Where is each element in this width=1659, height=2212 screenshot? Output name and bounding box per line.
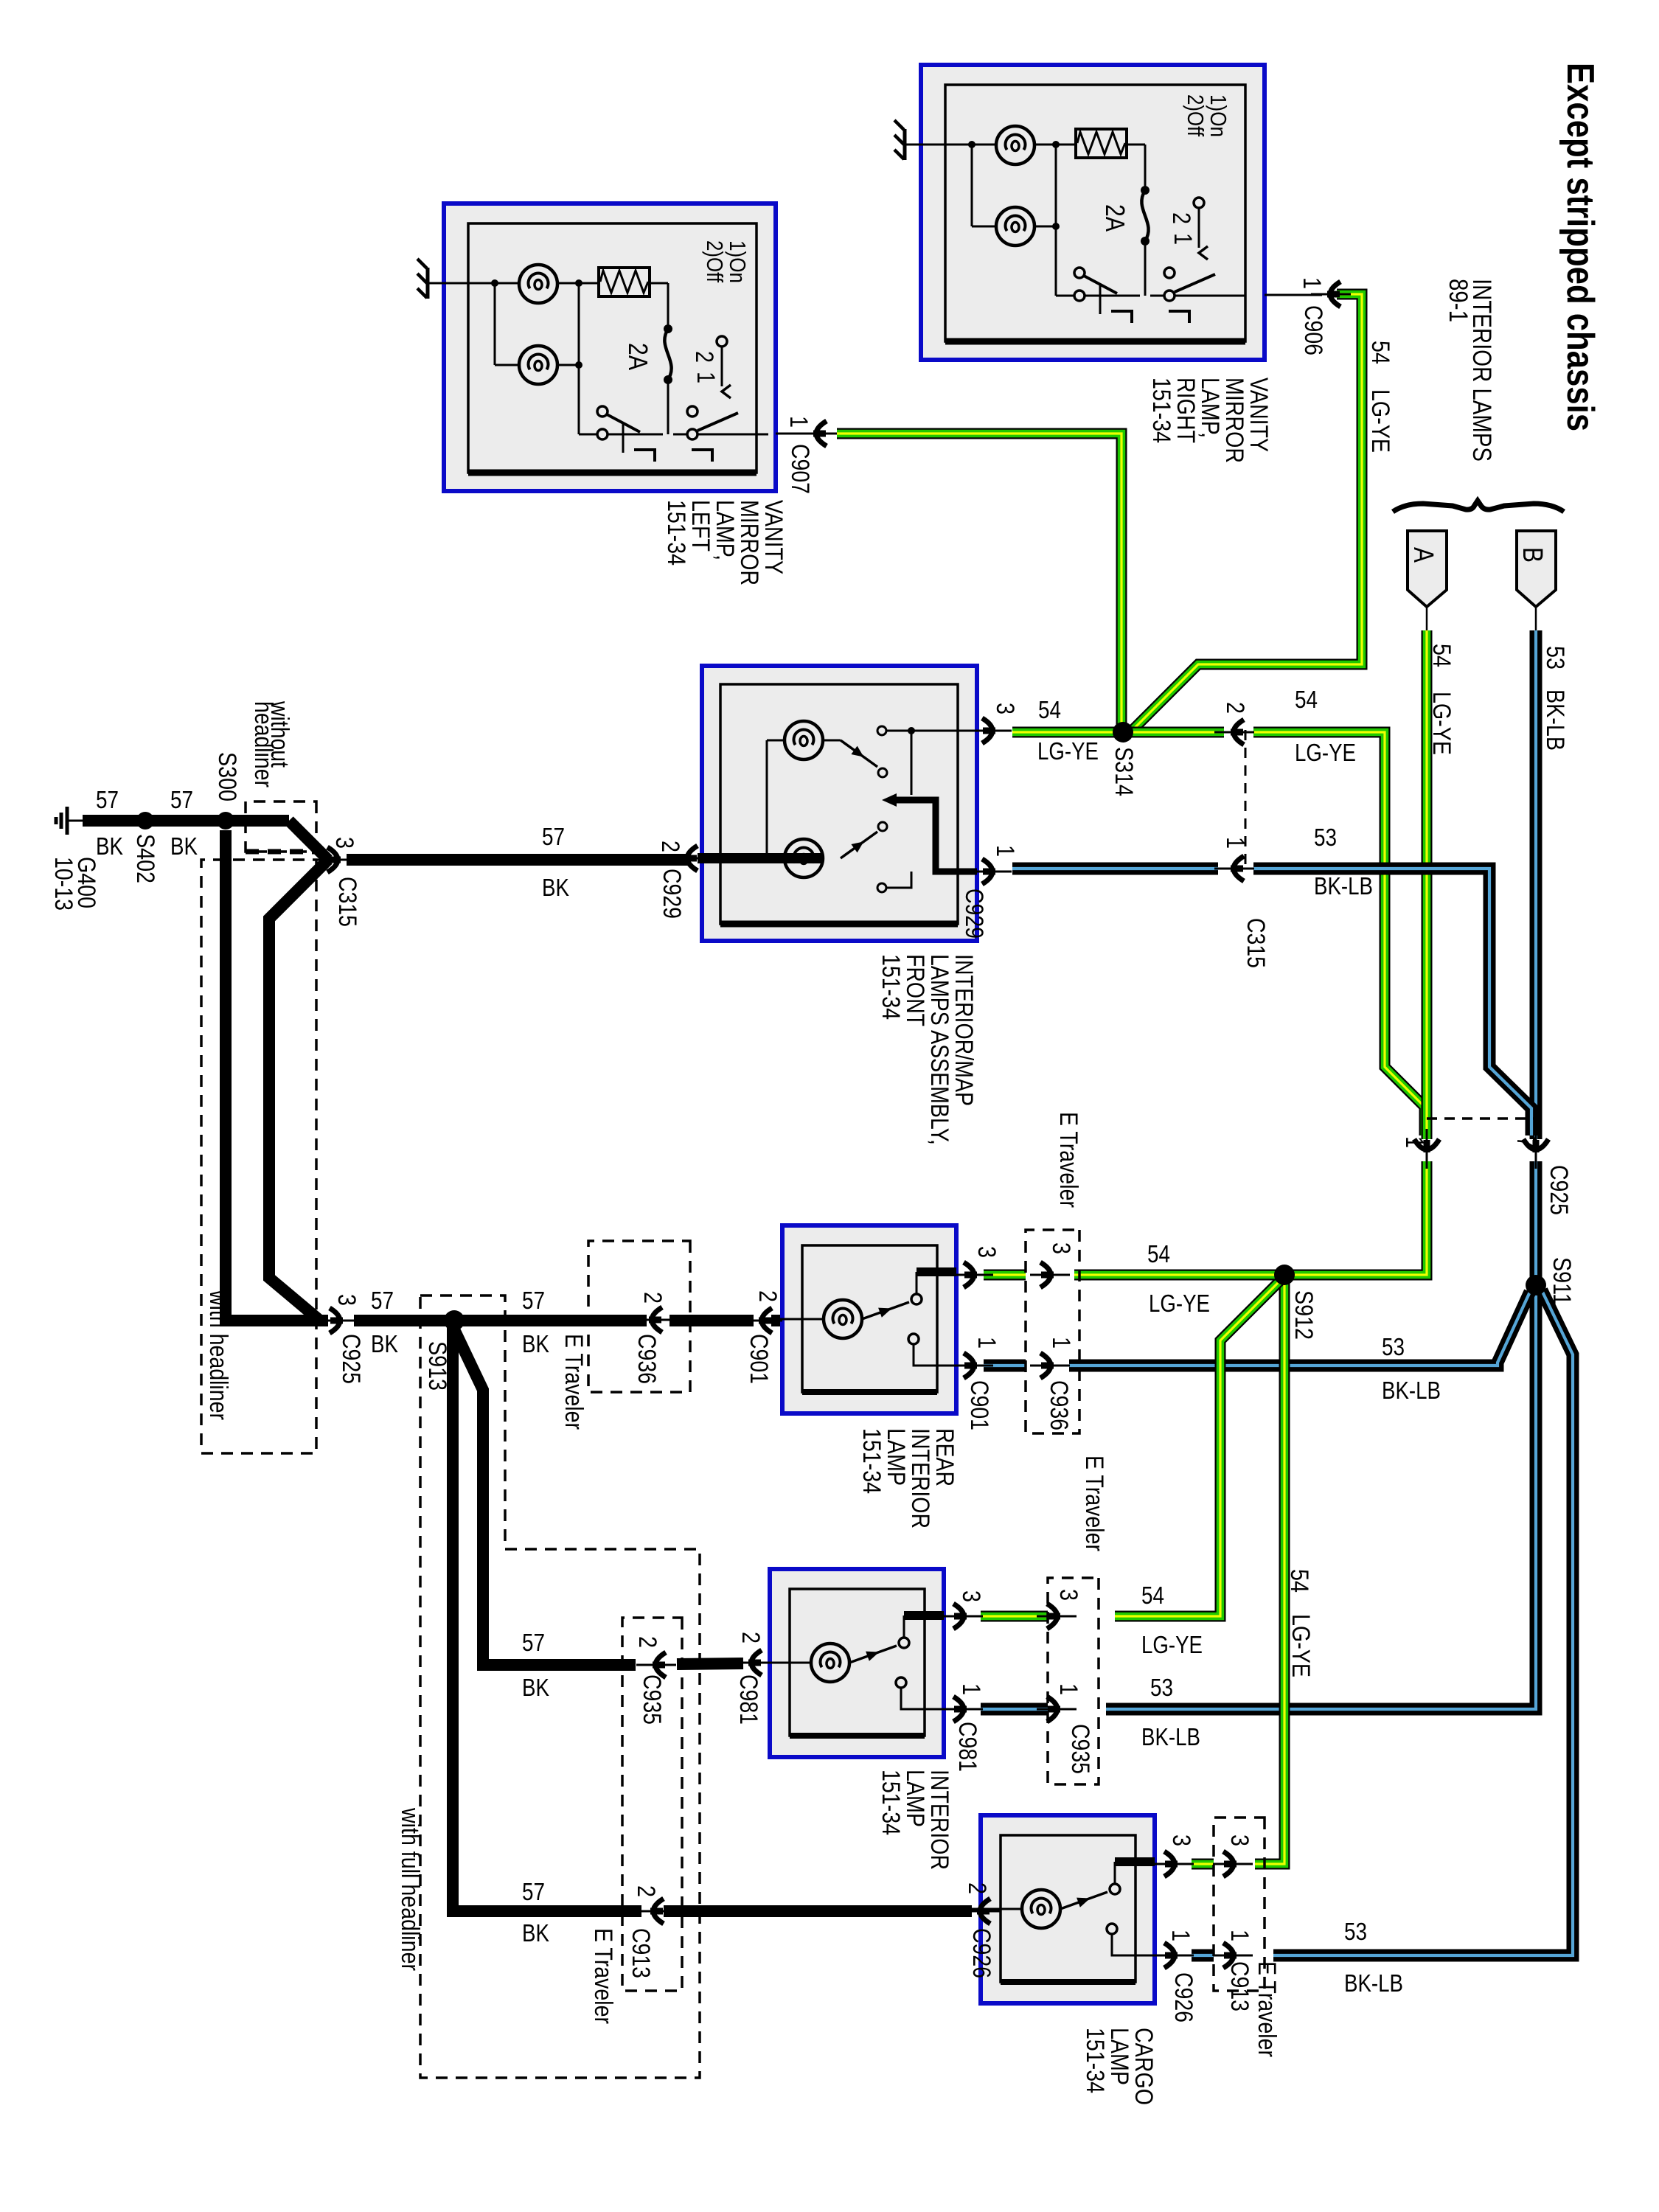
box outline — [782, 1225, 956, 1413]
svg-text:7: 7 — [1512, 1136, 1540, 1148]
svg-text:C901: C901 — [745, 1334, 773, 1384]
connector C925 line (right pins 1,7) — [1427, 1117, 1538, 1120]
connector C925 pin 7 — [1523, 1129, 1548, 1169]
lamp — [811, 1644, 849, 1682]
svg-text:C935: C935 — [1066, 1724, 1094, 1774]
connector C315 pin 2 — [1214, 720, 1254, 745]
svg-text:BK: BK — [371, 1330, 398, 1357]
wire 57 BK C913-2 to C926-2 — [664, 1905, 972, 1917]
dashed box with full headliner — [420, 1295, 700, 2078]
svg-text:3: 3 — [1225, 1834, 1253, 1846]
svg-text:2: 2 — [754, 1290, 782, 1302]
connector C935/C913 box pin 2 — [622, 1618, 682, 1991]
box outline — [921, 65, 1265, 360]
lamp — [824, 1300, 862, 1338]
svg-text:1: 1 — [1298, 277, 1326, 289]
fuse 2A — [1141, 186, 1150, 195]
svg-text:1)On: 1)On — [1206, 94, 1231, 137]
internal wiring — [773, 1318, 824, 1321]
svg-text:E Traveler: E Traveler — [1054, 1112, 1082, 1208]
svg-text:INTERIOR: INTERIOR — [906, 1428, 934, 1528]
svg-text:LG-YE: LG-YE — [1141, 1631, 1203, 1658]
svg-text:54: 54 — [1285, 1569, 1313, 1593]
wire 53 BK-LB below C925-7 to S911 — [1530, 1161, 1543, 1285]
svg-text:VANITY: VANITY — [759, 500, 787, 574]
box outline — [702, 666, 977, 941]
pin 2 C926 — [961, 1899, 1001, 1924]
connector C935 pins — [1037, 1604, 1077, 1629]
svg-text:LG-YE: LG-YE — [1037, 737, 1099, 765]
svg-text:S911: S911 — [1548, 1257, 1576, 1305]
svg-text:BK-LB: BK-LB — [1141, 1723, 1200, 1750]
svg-text:53: 53 — [1150, 1674, 1173, 1701]
svg-text:3: 3 — [1054, 1589, 1082, 1601]
wire 54 LG-YE C315-2 onward to C925-1 — [1253, 732, 1425, 1135]
wire 53 BK-LB S911 left to C936-1 — [1069, 1292, 1530, 1366]
svg-text:BK-LB: BK-LB — [1314, 872, 1373, 900]
wire 54 LG-YE from C906 to S314 — [1130, 294, 1362, 732]
lamp 1 — [996, 126, 1034, 164]
svg-text:INTERIOR: INTERIOR — [925, 1770, 953, 1870]
svg-text:2: 2 — [1167, 212, 1195, 224]
pin 1 C981 — [943, 1697, 983, 1722]
svg-text:57: 57 — [522, 1878, 545, 1905]
wire 54 LG-YE front pin3 to S314 to C315 — [1012, 727, 1224, 738]
svg-text:57: 57 — [522, 1629, 545, 1656]
lamp 2 — [785, 839, 823, 877]
svg-text:2A: 2A — [1100, 204, 1130, 232]
svg-text:LG-YE: LG-YE — [1366, 389, 1394, 453]
svg-text:C981: C981 — [734, 1674, 762, 1725]
wire 57 BK ground run G400-S402-S300 — [83, 815, 289, 827]
wire 53 BK-LB S911 to C913-1 — [1273, 1290, 1573, 1955]
internal wiring — [494, 283, 496, 365]
svg-text:151-34: 151-34 — [662, 500, 690, 566]
svg-text:LAMP,: LAMP, — [1196, 378, 1224, 438]
svg-text:1: 1 — [1225, 1930, 1253, 1941]
svg-text:57: 57 — [522, 1287, 545, 1314]
wire 53 BK-LB C315-1 onward to C925-7 — [1253, 869, 1531, 1135]
svg-text:LAMP: LAMP — [1105, 2028, 1133, 2085]
wire 53 BK-LB front pin1 to C315-1 — [1012, 863, 1218, 875]
wire 57 BK C925-3 to S913 to C936-2 — [354, 1315, 647, 1326]
pin 3 C981 — [943, 1604, 983, 1629]
svg-text:S300: S300 — [213, 752, 241, 801]
pin 1 C901 — [953, 1353, 993, 1378]
pin 1 C926 — [1154, 1943, 1194, 1968]
svg-text:53: 53 — [1382, 1333, 1405, 1360]
wire 53 BK-LB C913-1 stub to cargo pin1 — [1192, 1950, 1214, 1962]
svg-text:2)Off: 2)Off — [1183, 94, 1208, 136]
svg-text:C929: C929 — [658, 869, 686, 919]
svg-text:C935: C935 — [638, 1674, 666, 1725]
splice S911 — [1526, 1275, 1546, 1295]
wire 53 BK-LB S911 down to C935-1 — [1106, 1285, 1536, 1709]
brace — [1393, 501, 1564, 512]
svg-text:54: 54 — [1038, 696, 1061, 723]
internal wiring — [971, 145, 973, 226]
svg-text:54: 54 — [1147, 1240, 1170, 1267]
switch right 2-1 — [1164, 268, 1175, 278]
connector C925 pin 1 — [1414, 1129, 1439, 1169]
svg-text:LAMP: LAMP — [901, 1770, 929, 1827]
svg-text:S912: S912 — [1290, 1290, 1318, 1340]
ground G400 — [56, 807, 85, 835]
pin 2 C901 — [742, 1308, 782, 1333]
svg-text:2: 2 — [632, 1885, 660, 1897]
svg-text:2: 2 — [690, 351, 718, 363]
svg-text:BK: BK — [542, 874, 569, 901]
wire 57 BK S913 down to interior lamp C935-2 — [454, 1329, 636, 1665]
flag B — [1517, 531, 1556, 607]
wire 53 BK-LB C936-1 stub to rear lamp pin1 — [984, 1360, 1026, 1372]
connector C315 pin 1 — [1214, 856, 1254, 881]
connector C925 pin 3 — [319, 1308, 359, 1333]
svg-text:LG-YE: LG-YE — [1295, 739, 1356, 766]
svg-text:S314: S314 — [1110, 747, 1138, 796]
svg-text:C981: C981 — [953, 1722, 981, 1772]
pin 3 C929 — [972, 718, 1012, 743]
svg-text:57: 57 — [170, 786, 193, 813]
svg-text:1: 1 — [785, 416, 813, 428]
ground — [906, 144, 945, 146]
svg-text:RIGHT: RIGHT — [1172, 378, 1200, 443]
svg-text:54: 54 — [1427, 644, 1455, 667]
svg-text:2: 2 — [737, 1632, 765, 1644]
wire 57 BK C901-2 stub into rear lamp — [771, 1315, 782, 1326]
wire 54 LG-YE S912 down to C913-3 — [1255, 1275, 1284, 1864]
svg-text:89-1: 89-1 — [1444, 279, 1472, 322]
svg-text:151-34: 151-34 — [1147, 378, 1175, 443]
wire 54 LG-YE below C925-1 to S912 — [1284, 1161, 1427, 1275]
svg-text:C936: C936 — [1045, 1380, 1073, 1430]
connector C913 box pins 3,1 — [1214, 1818, 1265, 1991]
svg-text:BK-LB: BK-LB — [1541, 689, 1569, 751]
svg-text:1: 1 — [1047, 1337, 1075, 1349]
pin 2 C929 — [668, 846, 708, 871]
lamp 1 — [519, 265, 557, 303]
svg-text:2)Off: 2)Off — [702, 240, 728, 282]
svg-text:C925: C925 — [1545, 1165, 1573, 1215]
svg-text:LAMP,: LAMP, — [711, 500, 739, 560]
wire 57 BK C315-3 to C929-2 — [347, 854, 689, 866]
svg-text:54: 54 — [1295, 686, 1318, 713]
svg-text:CARGO: CARGO — [1130, 2028, 1158, 2105]
svg-text:1)On: 1)On — [725, 240, 751, 283]
svg-text:2: 2 — [1221, 702, 1249, 714]
splice S314 — [1113, 722, 1133, 742]
svg-text:BK: BK — [522, 1674, 549, 1701]
splice S300 — [217, 812, 234, 829]
svg-text:3: 3 — [1047, 1242, 1075, 1254]
box outline — [444, 204, 776, 491]
ground — [429, 282, 468, 285]
pin 1 C906 — [1265, 294, 1322, 296]
svg-text:INTERIOR/MAP: INTERIOR/MAP — [950, 954, 978, 1106]
lamp 1 — [785, 721, 823, 759]
svg-text:3: 3 — [1167, 1834, 1195, 1846]
flag A — [1408, 531, 1447, 607]
svg-text:10-13: 10-13 — [49, 857, 77, 911]
lamp 2 — [996, 207, 1034, 246]
svg-text:54: 54 — [1366, 341, 1394, 364]
svg-text:BK-LB: BK-LB — [1344, 1969, 1403, 1997]
wire 54 LG-YE from C907 to S314 — [837, 434, 1121, 726]
pin 1 C907 — [776, 433, 808, 435]
svg-text:C913: C913 — [627, 1928, 655, 1978]
svg-text:E Traveler: E Traveler — [1253, 1961, 1281, 2057]
svg-text:REAR: REAR — [931, 1428, 959, 1486]
pin 1 C929 — [972, 859, 1012, 884]
switch left — [1056, 295, 1074, 297]
svg-text:3: 3 — [991, 703, 1019, 714]
fuse 2A — [664, 324, 672, 333]
connector C315 pin 3 — [317, 847, 357, 872]
svg-text:Except stripped chassis: Except stripped chassis — [1559, 63, 1601, 431]
svg-text:BK: BK — [96, 832, 123, 860]
svg-text:MIRROR: MIRROR — [1220, 378, 1248, 463]
svg-text:E Traveler: E Traveler — [1080, 1455, 1108, 1551]
svg-text:C926: C926 — [1169, 1972, 1197, 2023]
svg-text:2: 2 — [656, 841, 684, 852]
svg-text:S913: S913 — [423, 1341, 451, 1391]
svg-text:E Traveler: E Traveler — [560, 1334, 588, 1430]
wire 53 BK-LB flag B down through C925-7 — [1535, 607, 1537, 630]
wire 57 BK C315-3 diag down — [269, 860, 328, 1321]
svg-text:LG-YE: LG-YE — [1149, 1290, 1210, 1317]
svg-text:C315: C315 — [1242, 918, 1270, 968]
connector C936 pins — [1030, 1262, 1070, 1287]
svg-text:2A: 2A — [623, 343, 653, 370]
svg-text:headliner: headliner — [249, 701, 277, 787]
svg-text:C929: C929 — [960, 888, 988, 939]
internal wiring — [761, 1662, 811, 1664]
svg-text:BK: BK — [522, 1330, 549, 1357]
svg-text:2: 2 — [639, 1292, 667, 1304]
pin 3 C926 — [1154, 1851, 1194, 1877]
connector C935 box pins 3,1 — [1048, 1578, 1099, 1784]
wire 54 LG-YE C936-3 stub to rear lamp pin3 — [984, 1270, 1026, 1281]
svg-text:A: A — [1408, 547, 1439, 563]
connector C913 pins — [1213, 1851, 1253, 1877]
svg-text:LAMPS ASSEMBLY,: LAMPS ASSEMBLY, — [925, 954, 953, 1145]
svg-text:C907: C907 — [786, 444, 814, 494]
connector C936 box pins 3,1 — [1026, 1230, 1079, 1433]
svg-text:1: 1 — [1169, 233, 1197, 245]
svg-text:3: 3 — [957, 1590, 985, 1602]
pin 3 C901 — [953, 1262, 993, 1287]
svg-text:C926: C926 — [967, 1928, 995, 1978]
svg-text:1: 1 — [1400, 1136, 1428, 1148]
svg-text:LG-YE: LG-YE — [1287, 1614, 1315, 1677]
svg-text:3: 3 — [333, 1294, 361, 1306]
box outline — [981, 1815, 1155, 2003]
svg-text:LAMP: LAMP — [882, 1428, 910, 1486]
dashed box with headliner — [201, 860, 316, 1453]
svg-text:with full headliner: with full headliner — [396, 1807, 424, 1971]
wire 57 BK C936-2 stub to C901-2 — [669, 1315, 754, 1326]
splice S402 — [136, 812, 154, 829]
svg-text:151-34: 151-34 — [1081, 2028, 1109, 2093]
wire 57 BK S300 down with-headliner — [226, 830, 328, 1321]
svg-text:C906: C906 — [1299, 305, 1327, 355]
svg-text:1: 1 — [1166, 1930, 1194, 1941]
svg-text:3: 3 — [973, 1246, 1001, 1258]
svg-text:C925: C925 — [337, 1334, 365, 1384]
lamp — [1022, 1890, 1060, 1928]
svg-text:151-34: 151-34 — [858, 1428, 886, 1494]
switch left — [579, 434, 597, 436]
svg-text:BK: BK — [522, 1919, 549, 1947]
connector C315 line — [1245, 730, 1247, 870]
svg-text:151-34: 151-34 — [877, 954, 905, 1020]
svg-text:1: 1 — [991, 845, 1019, 857]
wire 57 BK without-headliner diag to C315-3 — [289, 821, 328, 860]
wire 53 BK-LB C935-1 stub to interior lamp pin1 — [981, 1703, 1048, 1716]
wire 54 LG-YE C913-3 stub to cargo pin3 — [1192, 1859, 1214, 1870]
svg-text:53: 53 — [1541, 646, 1569, 669]
svg-text:MIRROR: MIRROR — [735, 500, 763, 585]
wire 57 BK C935-2 to C981-2 — [677, 1663, 743, 1664]
svg-text:1: 1 — [957, 1683, 985, 1695]
svg-text:3: 3 — [330, 837, 358, 849]
svg-text:151-34: 151-34 — [877, 1770, 905, 1835]
splice S912 — [1274, 1265, 1295, 1285]
svg-text:LG-YE: LG-YE — [1427, 692, 1455, 755]
wire 54 LG-YE C935-3 stub to interior lamp pin3 — [981, 1611, 1048, 1622]
dashed box without headliner — [246, 801, 316, 852]
connector C936 box pin 2 — [588, 1241, 690, 1392]
internal wiring — [766, 740, 768, 858]
svg-text:C913: C913 — [1225, 1961, 1253, 2011]
splice S913 — [444, 1310, 465, 1331]
svg-text:BK: BK — [170, 832, 198, 860]
svg-text:LEFT: LEFT — [686, 500, 714, 552]
svg-text:53: 53 — [1344, 1918, 1367, 1945]
svg-text:1: 1 — [692, 372, 720, 383]
svg-text:C936: C936 — [633, 1334, 661, 1384]
svg-text:C315: C315 — [333, 877, 361, 927]
lamp 2 — [519, 346, 557, 384]
svg-text:57: 57 — [542, 823, 565, 850]
switch right 2-1 — [687, 406, 698, 417]
svg-text:2: 2 — [963, 1882, 991, 1894]
svg-text:S402: S402 — [131, 834, 159, 883]
svg-text:FRONT: FRONT — [901, 954, 929, 1026]
svg-text:1: 1 — [1054, 1683, 1082, 1695]
svg-text:54: 54 — [1141, 1582, 1164, 1609]
svg-text:1: 1 — [973, 1337, 1001, 1349]
svg-text:2: 2 — [633, 1636, 661, 1648]
wire 54 LG-YE flag A down to C925-1 — [1426, 607, 1428, 630]
svg-text:BK-LB: BK-LB — [1382, 1377, 1441, 1404]
resistor — [1076, 129, 1127, 158]
wire 54 LG-YE S912 to C935-3 — [1115, 1281, 1280, 1616]
resistor — [599, 268, 650, 296]
pin 2 C981 — [732, 1650, 772, 1675]
wire 57 BK S913 down full-headliner to C913-2 — [453, 1324, 641, 1911]
wire 54 LG-YE S912 left to C936-3 — [1074, 1270, 1284, 1281]
svg-text:57: 57 — [371, 1287, 394, 1314]
svg-text:57: 57 — [96, 786, 119, 813]
svg-text:B: B — [1517, 547, 1548, 563]
svg-text:with headliner: with headliner — [204, 1290, 232, 1420]
svg-text:C901: C901 — [965, 1380, 993, 1430]
svg-text:53: 53 — [1314, 824, 1337, 851]
svg-text:VANITY: VANITY — [1245, 378, 1273, 452]
internal wiring — [972, 1908, 1022, 1910]
svg-text:E Traveler: E Traveler — [589, 1928, 617, 2024]
svg-text:1: 1 — [1221, 837, 1249, 849]
box outline — [770, 1569, 944, 1757]
